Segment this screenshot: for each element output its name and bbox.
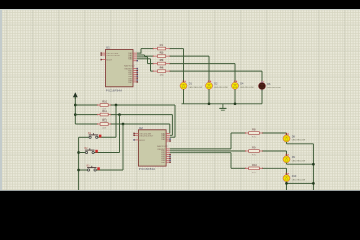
- svg-text:U1: U1: [106, 46, 110, 50]
- wire R8 to D8: [263, 132, 287, 134]
- resistor R11: [97, 109, 111, 120]
- U2 right pins RA0-RA4: [166, 133, 171, 141]
- wire tap down to button2: [119, 115, 121, 153]
- wire R6 to U2 RA1 run: [111, 114, 173, 116]
- wire jog down to D10: [286, 168, 288, 175]
- resistor R1: [153, 43, 171, 54]
- wire into R1: [141, 48, 153, 50]
- ground symbol: [219, 104, 226, 110]
- svg-text:PIC16F84A: PIC16F84A: [139, 167, 155, 171]
- svg-text:LED-YELLOW: LED-YELLOW: [292, 140, 305, 142]
- wire RA3 to R4 jog: [137, 58, 151, 60]
- U1 right pins RB0-RB7 (unconnected): [133, 68, 138, 83]
- junction bus-D4: [234, 102, 237, 105]
- wire D10 stub to sheet edge: [286, 183, 288, 190]
- wire D9 cathode down: [286, 163, 288, 165]
- wire R2 to D2 column: [170, 55, 209, 57]
- wire D8 cathode down: [286, 142, 288, 144]
- wire RA2 riser: [147, 57, 149, 64]
- wire RA1 to R2 jog: [137, 54, 145, 56]
- junction D10-bus wire: [285, 182, 288, 185]
- wire R9 to D9: [263, 150, 287, 152]
- resistor R8: [245, 128, 263, 139]
- junction bus-D10: [312, 182, 315, 185]
- microcontroller U2 PIC16F84A: [138, 126, 168, 171]
- junction rail-R6: [74, 113, 77, 116]
- wire into R3: [148, 63, 154, 65]
- LED D10: [283, 173, 305, 182]
- power symbol (VCC arrow): [73, 92, 78, 99]
- U2 left pins OSC1 OSC2 MCLR: [133, 133, 138, 141]
- wire down to RA1: [171, 115, 173, 136]
- left window edge: [0, 10, 2, 191]
- wire D4 cathode down: [234, 89, 236, 104]
- wire D10 cathode down: [286, 182, 288, 184]
- svg-text:LED-YELLOW: LED-YELLOW: [292, 179, 305, 181]
- wire down to RA0 pin: [169, 124, 171, 133]
- wire RB2 dropper: [230, 153, 232, 169]
- wire D10 to bus: [287, 182, 314, 184]
- wire tap down to button3: [122, 124, 124, 170]
- svg-text:LED-YELLOW: LED-YELLOW: [189, 87, 202, 89]
- wire D8 to bus: [287, 143, 314, 145]
- resistor R4: [153, 66, 171, 77]
- junction bus-D2: [208, 102, 211, 105]
- wire into R2: [145, 55, 154, 57]
- wire RB2 run: [170, 152, 231, 154]
- svg-text:R8: R8: [252, 128, 256, 132]
- wire into RA2 pin: [170, 136, 175, 138]
- wire D1 cathode down: [183, 89, 185, 104]
- wire RA0 to R1 jog: [137, 52, 141, 54]
- wire D6 cathode down: [261, 89, 263, 103]
- wire into R10: [231, 167, 246, 169]
- wire D9 to bus: [287, 163, 314, 165]
- svg-text:OSC2/CLKOUT: OSC2/CLKOUT: [139, 135, 154, 137]
- svg-text:LED-YELLOW: LED-YELLOW: [292, 160, 305, 162]
- wire R1 to D1 column: [170, 48, 184, 50]
- U1 right pins RA0-RA4: [133, 53, 138, 61]
- resistor R12: [97, 119, 111, 130]
- svg-text:R1: R1: [160, 43, 164, 47]
- microcontroller U1 PIC16F84A: [106, 46, 135, 93]
- LED D1: [180, 81, 202, 90]
- wire into R8: [231, 132, 246, 134]
- wire right ground bus: [312, 144, 314, 190]
- U1 left pins OSC1 OSC2 MCLR: [100, 52, 105, 60]
- svg-text:MCLR: MCLR: [106, 60, 112, 62]
- svg-text:R3: R3: [160, 58, 164, 62]
- push button B1: [79, 132, 116, 139]
- svg-text:OSC2/CLKOUT: OSC2/CLKOUT: [106, 55, 121, 57]
- junction R7-button3 tap: [122, 123, 125, 126]
- wire down to D1: [183, 49, 185, 83]
- svg-text:R9: R9: [252, 146, 256, 150]
- svg-text:R10: R10: [252, 163, 257, 167]
- junction brail-button2: [77, 151, 80, 154]
- junction rail-R5: [74, 104, 77, 107]
- push button B3: [79, 165, 123, 171]
- top letterbox bar: [0, 0, 360, 9]
- junction brail-button3: [77, 169, 80, 172]
- junction bus-D9: [312, 163, 315, 166]
- svg-text:D10: D10: [292, 175, 297, 178]
- wire rail to R7: [75, 123, 97, 125]
- wire rail to R6: [75, 114, 97, 116]
- wire down to D3: [234, 64, 236, 83]
- wire R7 to U2 RA0 run: [111, 123, 170, 125]
- LED D9: [283, 154, 305, 163]
- svg-text:R4: R4: [160, 66, 164, 70]
- junction R5-button1 tap: [115, 104, 118, 107]
- wire left power rail: [74, 97, 76, 124]
- svg-text:MCLR: MCLR: [139, 140, 145, 142]
- LED D8: [283, 133, 305, 142]
- wire into RA1 pin: [170, 134, 173, 136]
- svg-text:LED-YELLOW: LED-YELLOW: [240, 87, 253, 89]
- wire rail to R5: [75, 104, 97, 106]
- junction R6-button2 tap: [118, 113, 121, 116]
- svg-text:LED-YELLOW: LED-YELLOW: [214, 87, 227, 89]
- wire RA3 riser: [150, 59, 152, 71]
- bottom letterbox bar: [0, 190, 360, 191]
- wire jog down to D9: [286, 151, 288, 156]
- svg-text:R12: R12: [102, 119, 107, 123]
- wire into R4: [151, 70, 154, 72]
- wire RB0 run: [170, 148, 231, 150]
- resistor R10: [245, 163, 263, 174]
- resistor R10: [97, 100, 111, 111]
- LED D2: [206, 81, 228, 90]
- wire R10 to D10: [263, 167, 287, 169]
- wire RB1 run: [170, 150, 246, 152]
- resistor R3: [153, 58, 171, 69]
- schematic sheet background: [0, 10, 360, 191]
- wire down to D2: [208, 56, 210, 82]
- resistor R2: [153, 51, 171, 62]
- wire button ground rail: [78, 137, 80, 190]
- svg-text:U2: U2: [139, 126, 143, 130]
- svg-text:PIC16F84A: PIC16F84A: [106, 88, 122, 92]
- svg-text:RA4/TOCKI: RA4/TOCKI: [124, 65, 135, 68]
- wire down to RA2: [174, 105, 176, 137]
- svg-text:R2: R2: [160, 51, 164, 55]
- svg-text:LED-YELLOW: LED-YELLOW: [267, 87, 280, 89]
- wire RA2 to R3 jog: [137, 56, 148, 58]
- svg-text:R10: R10: [102, 100, 107, 104]
- wire down to D4: [261, 71, 263, 83]
- wire R4 to D4 column: [170, 70, 262, 72]
- wire D2 cathode down: [208, 89, 210, 104]
- wire R5 to U2 RA2 run: [111, 104, 175, 106]
- svg-text:R11: R11: [102, 109, 107, 113]
- wire tap down to button1: [115, 105, 117, 137]
- LED D4: [232, 81, 254, 90]
- wire RA1 riser: [144, 55, 146, 56]
- wire RB0 riser: [230, 133, 232, 149]
- wire jog down to D8: [286, 133, 288, 135]
- push button B2: [79, 147, 120, 153]
- wire R3 to D3 column: [170, 63, 235, 65]
- wire ground bus top section: [182, 103, 263, 105]
- LED D6: [259, 81, 281, 91]
- svg-text:RA4/TOCKI: RA4/TOCKI: [157, 145, 168, 148]
- resistor R9: [245, 146, 263, 157]
- wire RA0 riser: [140, 49, 142, 54]
- U2 right pins RB0-RB7: [166, 149, 171, 163]
